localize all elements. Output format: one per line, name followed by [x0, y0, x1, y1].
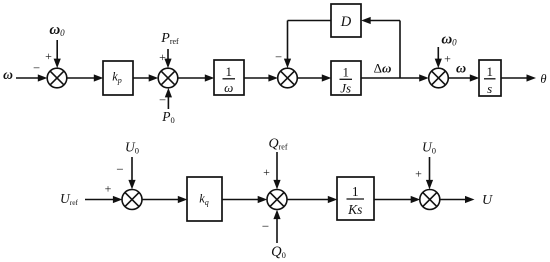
node Q0 (below S6) [271, 244, 286, 260]
summing junction S1 [47, 68, 67, 88]
wire 1/Js to S4 (delta-omega line) [361, 74, 429, 81]
svg-text:U: U [482, 193, 493, 208]
block 1/omega [214, 60, 244, 95]
node U0 (above S5) [125, 140, 139, 156]
wire D output down into S3 [284, 21, 291, 69]
svg-text:+: + [415, 167, 422, 181]
svg-text:ω: ω [3, 67, 13, 82]
summing junction S4 [429, 68, 449, 88]
wire Q0 into S6 [273, 210, 280, 243]
node U0 (above S7) [422, 140, 436, 156]
block 1/Ks [337, 177, 374, 220]
summing junction S7 [420, 190, 440, 210]
svg-text:Δω: Δω [374, 61, 392, 76]
svg-text:s: s [487, 81, 492, 96]
svg-text:+: + [444, 52, 451, 66]
wire 1/omega to S3 [244, 74, 278, 81]
svg-text:1: 1 [486, 64, 493, 79]
wire Uref input [85, 196, 122, 203]
integrator block 1/s [479, 60, 501, 96]
node U (output label) [482, 193, 493, 208]
wire S7 to U output [440, 196, 475, 203]
wire kq to S6 [222, 196, 267, 203]
svg-text:D: D [340, 14, 352, 30]
node P0 (below S2) [161, 109, 175, 125]
node omega (S4 output label) [456, 62, 466, 77]
summing junction S5 [122, 190, 142, 210]
wire Qref into S6 [273, 152, 280, 189]
wire S2 to 1/omega block [178, 74, 215, 81]
wire branch to D input [361, 17, 400, 24]
damping block D [331, 4, 361, 37]
label - (minus at S6 bottom input) [262, 219, 269, 234]
wire omega0 into S4 [435, 47, 442, 68]
svg-text:+: + [45, 49, 52, 63]
summing junction S6 [267, 190, 287, 210]
svg-text:−: − [33, 61, 40, 75]
wire 1/s to theta output [501, 74, 536, 81]
svg-text:1: 1 [342, 65, 349, 80]
svg-text:ω: ω [224, 80, 233, 95]
label - (minus at S5 top input) [116, 162, 123, 177]
summing junction S3 [278, 68, 298, 88]
svg-text:ω: ω [456, 62, 466, 77]
wire S1 to kp [67, 74, 104, 81]
svg-text:Js: Js [340, 81, 351, 96]
gain block kq [187, 177, 222, 221]
wire S3 to 1/Js block [297, 74, 331, 81]
wire P0 into S2 [165, 88, 172, 109]
svg-text:+: + [105, 182, 112, 196]
label + (plus at S6 top input) [263, 165, 270, 179]
node omega (input label) [3, 67, 13, 82]
node Qref (above S6) [268, 137, 287, 152]
svg-text:−: − [262, 219, 269, 234]
svg-text:+: + [263, 165, 270, 179]
summing junction S2 [158, 68, 178, 88]
label + (plus at S7 top input) [415, 167, 422, 181]
gain block kp [103, 61, 133, 95]
node Pref (above S2) [160, 31, 179, 46]
block 1/Js [331, 61, 361, 96]
wire S4 to 1/s block [448, 74, 479, 81]
wire S6 to 1/Ks block [287, 196, 337, 203]
svg-text:θ: θ [540, 72, 546, 86]
wire Pref into S2 [164, 49, 171, 68]
label + (plus at S2 top input) [159, 50, 166, 64]
svg-text:−: − [159, 93, 166, 107]
label - (minus at S2 bottom input) [159, 93, 166, 107]
wire S5 to kq [142, 196, 187, 203]
svg-text:−: − [116, 162, 123, 177]
node delta-omega [374, 61, 392, 76]
label - (minus at S3 top input) [275, 50, 282, 64]
wire omega0 into S1 [54, 40, 61, 68]
wire omega input [16, 74, 47, 81]
label + (plus at S5 left input) [105, 182, 112, 196]
wire D output leftward [288, 20, 332, 22]
svg-text:1: 1 [225, 64, 232, 79]
node omega0 (above S1) [49, 22, 65, 38]
node theta (output label) [540, 72, 546, 86]
wire U0 into S7 [426, 157, 433, 189]
label + (plus at S4 top input) [444, 52, 451, 66]
node Uref (input label) [60, 191, 79, 207]
label + (plus at S1 top input) [45, 49, 52, 63]
svg-text:−: − [275, 50, 282, 64]
wire kp to S2 [133, 74, 158, 81]
wire U0 into S5 [128, 157, 135, 189]
svg-text:Ks: Ks [347, 202, 362, 217]
wire 1/Ks to S7 [374, 196, 420, 203]
svg-text:+: + [159, 50, 166, 64]
wire branch up from delta-omega node [399, 21, 401, 79]
label - (minus at S1 left input) [33, 61, 40, 75]
svg-text:1: 1 [352, 184, 359, 199]
node omega0 (above S4) [441, 32, 457, 48]
